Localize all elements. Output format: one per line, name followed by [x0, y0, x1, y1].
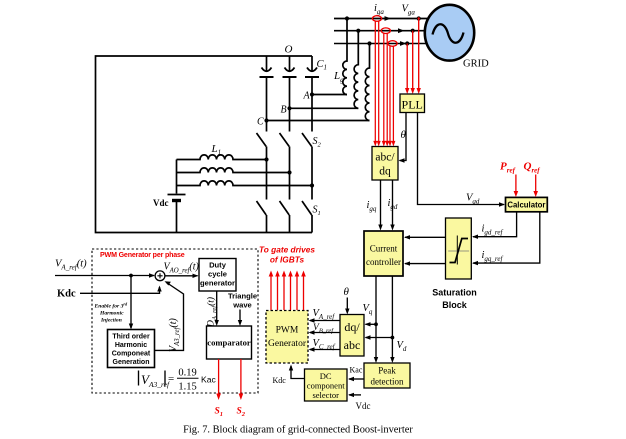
svg-text:θ: θ: [401, 129, 407, 141]
wire S2 comparator output (red): [240, 359, 242, 394]
svg-text:DC: DC: [320, 371, 332, 381]
PWM Generator per phase dashed box: [92, 249, 258, 393]
wire S1 comparator output (red): [218, 359, 220, 394]
inductor Lg2 (vertical coil phase b): [354, 31, 358, 109]
wire grid bus phase b: [334, 30, 427, 32]
capacitor C1 (phase c, right): [305, 56, 319, 77]
wire P_ref into Calculator (red): [515, 175, 517, 192]
wire column3 upper: [311, 77, 313, 132]
svg-text:0.19: 0.19: [178, 368, 196, 379]
equation |V_A3_ref| = 0.19/1.15 Kac: [139, 368, 217, 393]
wire i_gq_ref Calculator to saturation: [473, 212, 540, 263]
wire column2 lower: [289, 215, 291, 233]
op-block U7 Peak detection: [364, 363, 410, 388]
wire theta PLL to abc/dq: [400, 113, 407, 161]
wire D_A_ref(t) duty gen to comparator: [216, 291, 218, 321]
wire i_gq abc/dq to Current controller: [380, 180, 382, 225]
wire node B to Lg2: [290, 107, 359, 109]
CT sensor phase c (red ellipse): [388, 41, 397, 47]
svg-text:PWM Generator per phase: PWM Generator per phase: [100, 251, 185, 259]
summer (summing junction): [155, 271, 165, 281]
svg-text:Triangle: Triangle: [228, 292, 257, 301]
switch S1 phase-a blade: [257, 201, 267, 215]
svg-text:θ: θ: [344, 286, 350, 298]
wire column2 upper: [289, 77, 291, 132]
op-block U2 abc/dq transform: [372, 147, 398, 181]
current arrow bus b: [398, 28, 405, 33]
svg-text:Vdc: Vdc: [153, 198, 169, 208]
CT sensor phase a (red ellipse): [372, 16, 381, 22]
op-block U9 PWM Generator: [266, 311, 308, 364]
wire column1 lower: [266, 215, 268, 233]
svg-text:Harmonic: Harmonic: [115, 342, 147, 349]
grid source G1 (circle with sine): [425, 5, 474, 61]
op-block duty cycle generator: [199, 259, 236, 292]
junction V-tap bus c: [405, 41, 409, 45]
svg-text:Duty: Duty: [209, 261, 227, 270]
svg-text:Componeat: Componeat: [112, 351, 151, 358]
capacitor C1 (phase b, middle): [283, 56, 297, 77]
wire column1 upper (cap to switch S2a): [266, 77, 268, 132]
svg-text:=: =: [168, 373, 174, 385]
svg-text:Generator: Generator: [268, 339, 307, 349]
junction L1 row3 / column3: [310, 183, 314, 187]
arrowheads CT pairs into abc/dq: [373, 141, 395, 147]
svg-text:C: C: [257, 117, 264, 128]
wire V_q current controller to dq/abc and peak detection: [375, 276, 377, 358]
switch S2 phase-a blade: [257, 133, 267, 147]
wire CT pair a (red) to abc/dq: [375, 21, 393, 141]
svg-text:To gate drives: To gate drives: [259, 245, 315, 255]
CT sensor phase b (red ellipse): [381, 28, 390, 34]
op-block U6 dq/abc transform: [340, 315, 364, 357]
node A: [310, 92, 314, 96]
svg-text:Enable for 3rd: Enable for 3rd: [94, 302, 129, 310]
svg-text:Kac: Kac: [350, 366, 363, 375]
op-block third order harmonic component generation: [108, 330, 155, 368]
arrowheads V-sense into PLL: [405, 88, 421, 94]
op-block U3 Current controller: [364, 231, 403, 276]
wire enable to third order block: [130, 276, 132, 329]
svg-text:GRID: GRID: [463, 59, 489, 70]
wire battery to bottom rail: [176, 202, 178, 233]
wire column3 middle: [311, 147, 313, 200]
svg-text:A: A: [303, 91, 311, 102]
op-block U8 DC component selector: [305, 369, 348, 401]
svg-text:Kdc: Kdc: [57, 289, 76, 300]
svg-text:Fig. 7. Block diagram of grid-: Fig. 7. Block diagram of grid-connected …: [183, 425, 413, 436]
svg-text:dq: dq: [379, 166, 391, 178]
svg-text:comparator: comparator: [207, 338, 251, 348]
wire V_C_ref dq/abc to PWM Generator: [310, 349, 340, 351]
wire column2 middle: [289, 147, 291, 200]
wire saturation to current controller (q): [405, 263, 446, 265]
wire V-sense a (red) to PLL: [407, 19, 419, 89]
svg-text:abc/: abc/: [375, 152, 395, 164]
inductor Lg1 (vertical coil phase a): [343, 19, 347, 95]
inductor L1 row1 (top): [177, 155, 267, 160]
battery Vdc: [168, 195, 186, 201]
current arrow bus a: [385, 16, 392, 21]
wire V_d current controller to dq/abc and peak detection: [391, 276, 393, 358]
wire triangle wave to comparator: [239, 310, 241, 321]
junction bus b / Lg2 tap: [356, 29, 360, 33]
wire Q_ref into Calculator (red): [535, 175, 537, 192]
inductor Lg3 (vertical coil phase c): [365, 44, 369, 121]
svg-text:Calculator: Calculator: [507, 201, 545, 210]
svg-text:Injection: Injection: [100, 318, 122, 324]
svg-text:Vdc: Vdc: [356, 401, 371, 411]
junction L1 row2 / column2: [287, 170, 291, 174]
svg-text:Third order: Third order: [112, 334, 150, 341]
svg-text:Current: Current: [370, 244, 398, 254]
svg-text:Kdc: Kdc: [273, 376, 287, 385]
svg-text:Kac: Kac: [201, 375, 217, 385]
wire theta into dq/abc: [346, 298, 348, 310]
switch S1 phase-c blade: [302, 201, 312, 215]
wire i_gd_ref Calculator to saturation: [473, 212, 517, 237]
svg-text:of IGBTs: of IGBTs: [270, 255, 305, 265]
op-block U5 Calculator: [506, 197, 548, 211]
svg-text:Harmonic: Harmonic: [99, 311, 124, 317]
svg-text:Peak: Peak: [378, 366, 396, 376]
wire Kac peak detection to DC component selector: [349, 378, 364, 380]
op-block U4 Saturation Block: [446, 218, 472, 279]
svg-text:Block: Block: [442, 300, 468, 310]
svg-text:wave: wave: [232, 301, 252, 310]
svg-text:controller: controller: [366, 257, 401, 267]
wire Vdc into DC component selector: [349, 394, 361, 396]
svg-text:O: O: [285, 44, 293, 56]
junction L1 row1 / column1: [264, 157, 268, 161]
junction bus a / Lg1 tap: [345, 16, 349, 20]
switch S1 phase-b blade: [280, 201, 290, 215]
inductor L1 row3 (bottom): [177, 181, 313, 186]
svg-text:selector: selector: [312, 390, 339, 400]
switch S2 phase-c blade: [302, 133, 312, 147]
capacitor C1 (phase a, left): [260, 56, 274, 77]
node B: [287, 106, 291, 110]
wire V_A_ref(t) into summer: [55, 275, 154, 277]
wire summer to duty cycle generator: [165, 275, 198, 277]
svg-text:component: component: [307, 381, 345, 391]
svg-text:PLL: PLL: [402, 98, 423, 112]
junction enable tap: [129, 274, 133, 278]
wire V_A_ref dq/abc to PWM Generator: [310, 320, 340, 322]
wire battery feed vertical: [176, 160, 178, 194]
inductor L1 row2 (middle): [177, 168, 290, 173]
wire node A to Lg1: [312, 94, 347, 96]
junction V-tap bus b: [411, 29, 415, 33]
wire grid bus phase c: [334, 43, 427, 45]
svg-text:generator: generator: [200, 279, 235, 288]
svg-text:Saturation: Saturation: [432, 288, 477, 298]
wire V_B_ref dq/abc to PWM Generator: [310, 332, 340, 334]
op-block comparator: [207, 326, 252, 359]
junction V-tap bus a: [417, 16, 421, 20]
wire column1 middle: [266, 147, 268, 200]
node C: [264, 118, 268, 122]
svg-text:Generation: Generation: [113, 359, 150, 366]
junction bus c / Lg3 tap: [367, 41, 371, 45]
wire V_A3_ref third order block to summer: [155, 283, 184, 351]
svg-text:PWM: PWM: [276, 326, 299, 336]
wire V_gd PLL to Calculator: [418, 113, 505, 205]
wire grid bus phase a: [334, 18, 428, 20]
wire node C to Lg3: [267, 120, 370, 122]
wire column3 lower: [311, 215, 313, 233]
switch S2 phase-b blade: [280, 133, 290, 147]
wire i_gd abc/dq to Current controller: [392, 180, 394, 225]
current arrow bus c: [400, 41, 407, 46]
wire saturation to current controller (d): [405, 236, 446, 238]
wire Kdc DC component selector to PWM Generator: [291, 366, 305, 379]
op-block U1 PLL: [400, 94, 425, 113]
svg-text:abc: abc: [344, 338, 361, 352]
svg-text:B: B: [281, 105, 287, 116]
svg-text:detection: detection: [371, 377, 404, 387]
svg-text:dq/: dq/: [344, 320, 360, 334]
wire Kdc into summer: [80, 287, 160, 293]
wire DC-link box outline (O bus top, left rail, bottom rail): [96, 56, 313, 233]
svg-text:1.15: 1.15: [178, 382, 196, 393]
wires gate drives (6 red arrows up): [271, 276, 304, 310]
svg-text:cycle: cycle: [208, 270, 227, 279]
